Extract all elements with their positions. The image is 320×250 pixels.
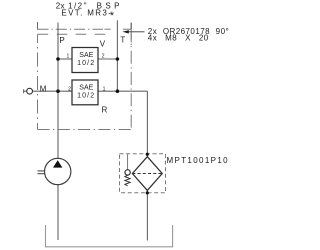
svg-text:R: R [102,105,108,114]
svg-text:1: 1 [103,87,106,93]
svg-text:10/2: 10/2 [77,60,95,67]
svg-text:*: * [110,10,115,22]
svg-text:P: P [59,36,64,45]
svg-text:1: 1 [67,54,70,60]
svg-text:SAE: SAE [79,85,93,92]
svg-text:2: 2 [68,87,71,93]
svg-text:T: T [120,36,125,45]
svg-text:10/2: 10/2 [77,93,95,100]
svg-text:MPT1001P10: MPT1001P10 [167,156,229,165]
svg-text:4x M8 X 20: 4x M8 X 20 [148,33,209,42]
svg-text:M: M [40,84,47,93]
svg-text:SAE: SAE [79,52,93,59]
svg-text:V: V [100,39,106,48]
svg-text:2: 2 [102,54,105,60]
svg-text:EVT. MR3-: EVT. MR3- [61,9,112,18]
